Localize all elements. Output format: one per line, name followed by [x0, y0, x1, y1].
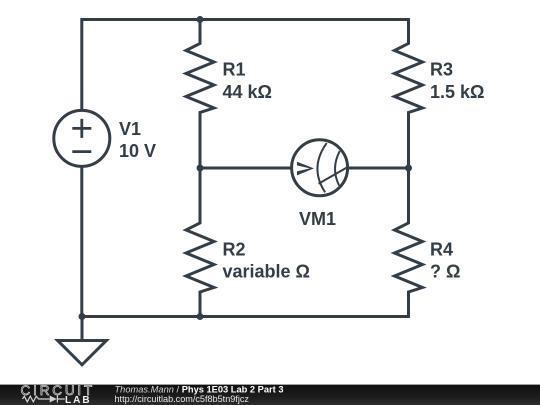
svg-text:R4: R4: [430, 239, 453, 259]
svg-text:R1: R1: [223, 60, 246, 80]
voltmeter gauge arcs: [317, 143, 348, 192]
resistor R3: [395, 20, 423, 169]
V1 minus sign: [72, 150, 91, 153]
svg-text:10 V: 10 V: [119, 141, 156, 161]
node ground: [79, 313, 86, 320]
node bottom (R2/bottom rail): [197, 313, 204, 320]
node middle left: [197, 165, 204, 172]
wire left rail lower: [80, 167, 83, 317]
ground: [58, 317, 107, 365]
voltmeter needle: [319, 167, 349, 184]
wire middle left: [200, 167, 291, 170]
svg-text:V1: V1: [119, 119, 141, 139]
resistor R2: [186, 168, 214, 317]
wire top rail: [82, 20, 409, 110]
svg-text:? Ω: ? Ω: [430, 262, 460, 282]
svg-text:variable Ω: variable Ω: [223, 262, 310, 282]
svg-text:1.5 kΩ: 1.5 kΩ: [430, 82, 484, 102]
resistor R1: [186, 20, 214, 169]
V1 plus sign: [72, 119, 91, 152]
wire bottom rail: [82, 315, 409, 318]
node middle right: [405, 165, 412, 172]
svg-text:R3: R3: [430, 60, 453, 80]
voltmeter arrow: [297, 162, 314, 176]
footer bar: [0, 385, 540, 405]
voltmeter VM1: [292, 140, 348, 196]
svg-text:44 kΩ: 44 kΩ: [223, 82, 272, 102]
logo waveform: [23, 396, 65, 403]
node top (R1/top rail): [197, 16, 204, 23]
svg-text:R2: R2: [223, 239, 246, 259]
svg-text:VM1: VM1: [299, 209, 336, 229]
resistor R4: [395, 168, 423, 317]
voltage source V1: [54, 110, 110, 166]
svg-text:LAB: LAB: [65, 395, 92, 405]
wire middle right: [349, 167, 409, 170]
svg-text:http://circuitlab.com/c5f8b5tn: http://circuitlab.com/c5f8b5tn9fjcz: [115, 394, 250, 404]
